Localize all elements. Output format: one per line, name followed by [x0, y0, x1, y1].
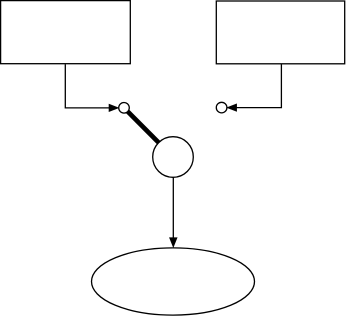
- wire from left rectangle: [65, 64, 110, 108]
- wire from right rectangle: [236, 64, 281, 107]
- switch lever thick line: [124, 108, 173, 157]
- node ellipse: [92, 248, 255, 315]
- switch contact small circle left: [119, 103, 130, 114]
- node right rectangle: [216, 1, 344, 64]
- switch contact small circle right: [216, 102, 227, 113]
- wire from big circle to ellipse: [172, 178, 174, 239]
- switch pivot big circle: [153, 137, 194, 178]
- node left rectangle: [1, 1, 131, 64]
- arrowhead left-pointing: [227, 104, 237, 111]
- arrowhead down-pointing: [170, 238, 178, 248]
- arrowhead right-pointing: [109, 104, 119, 111]
